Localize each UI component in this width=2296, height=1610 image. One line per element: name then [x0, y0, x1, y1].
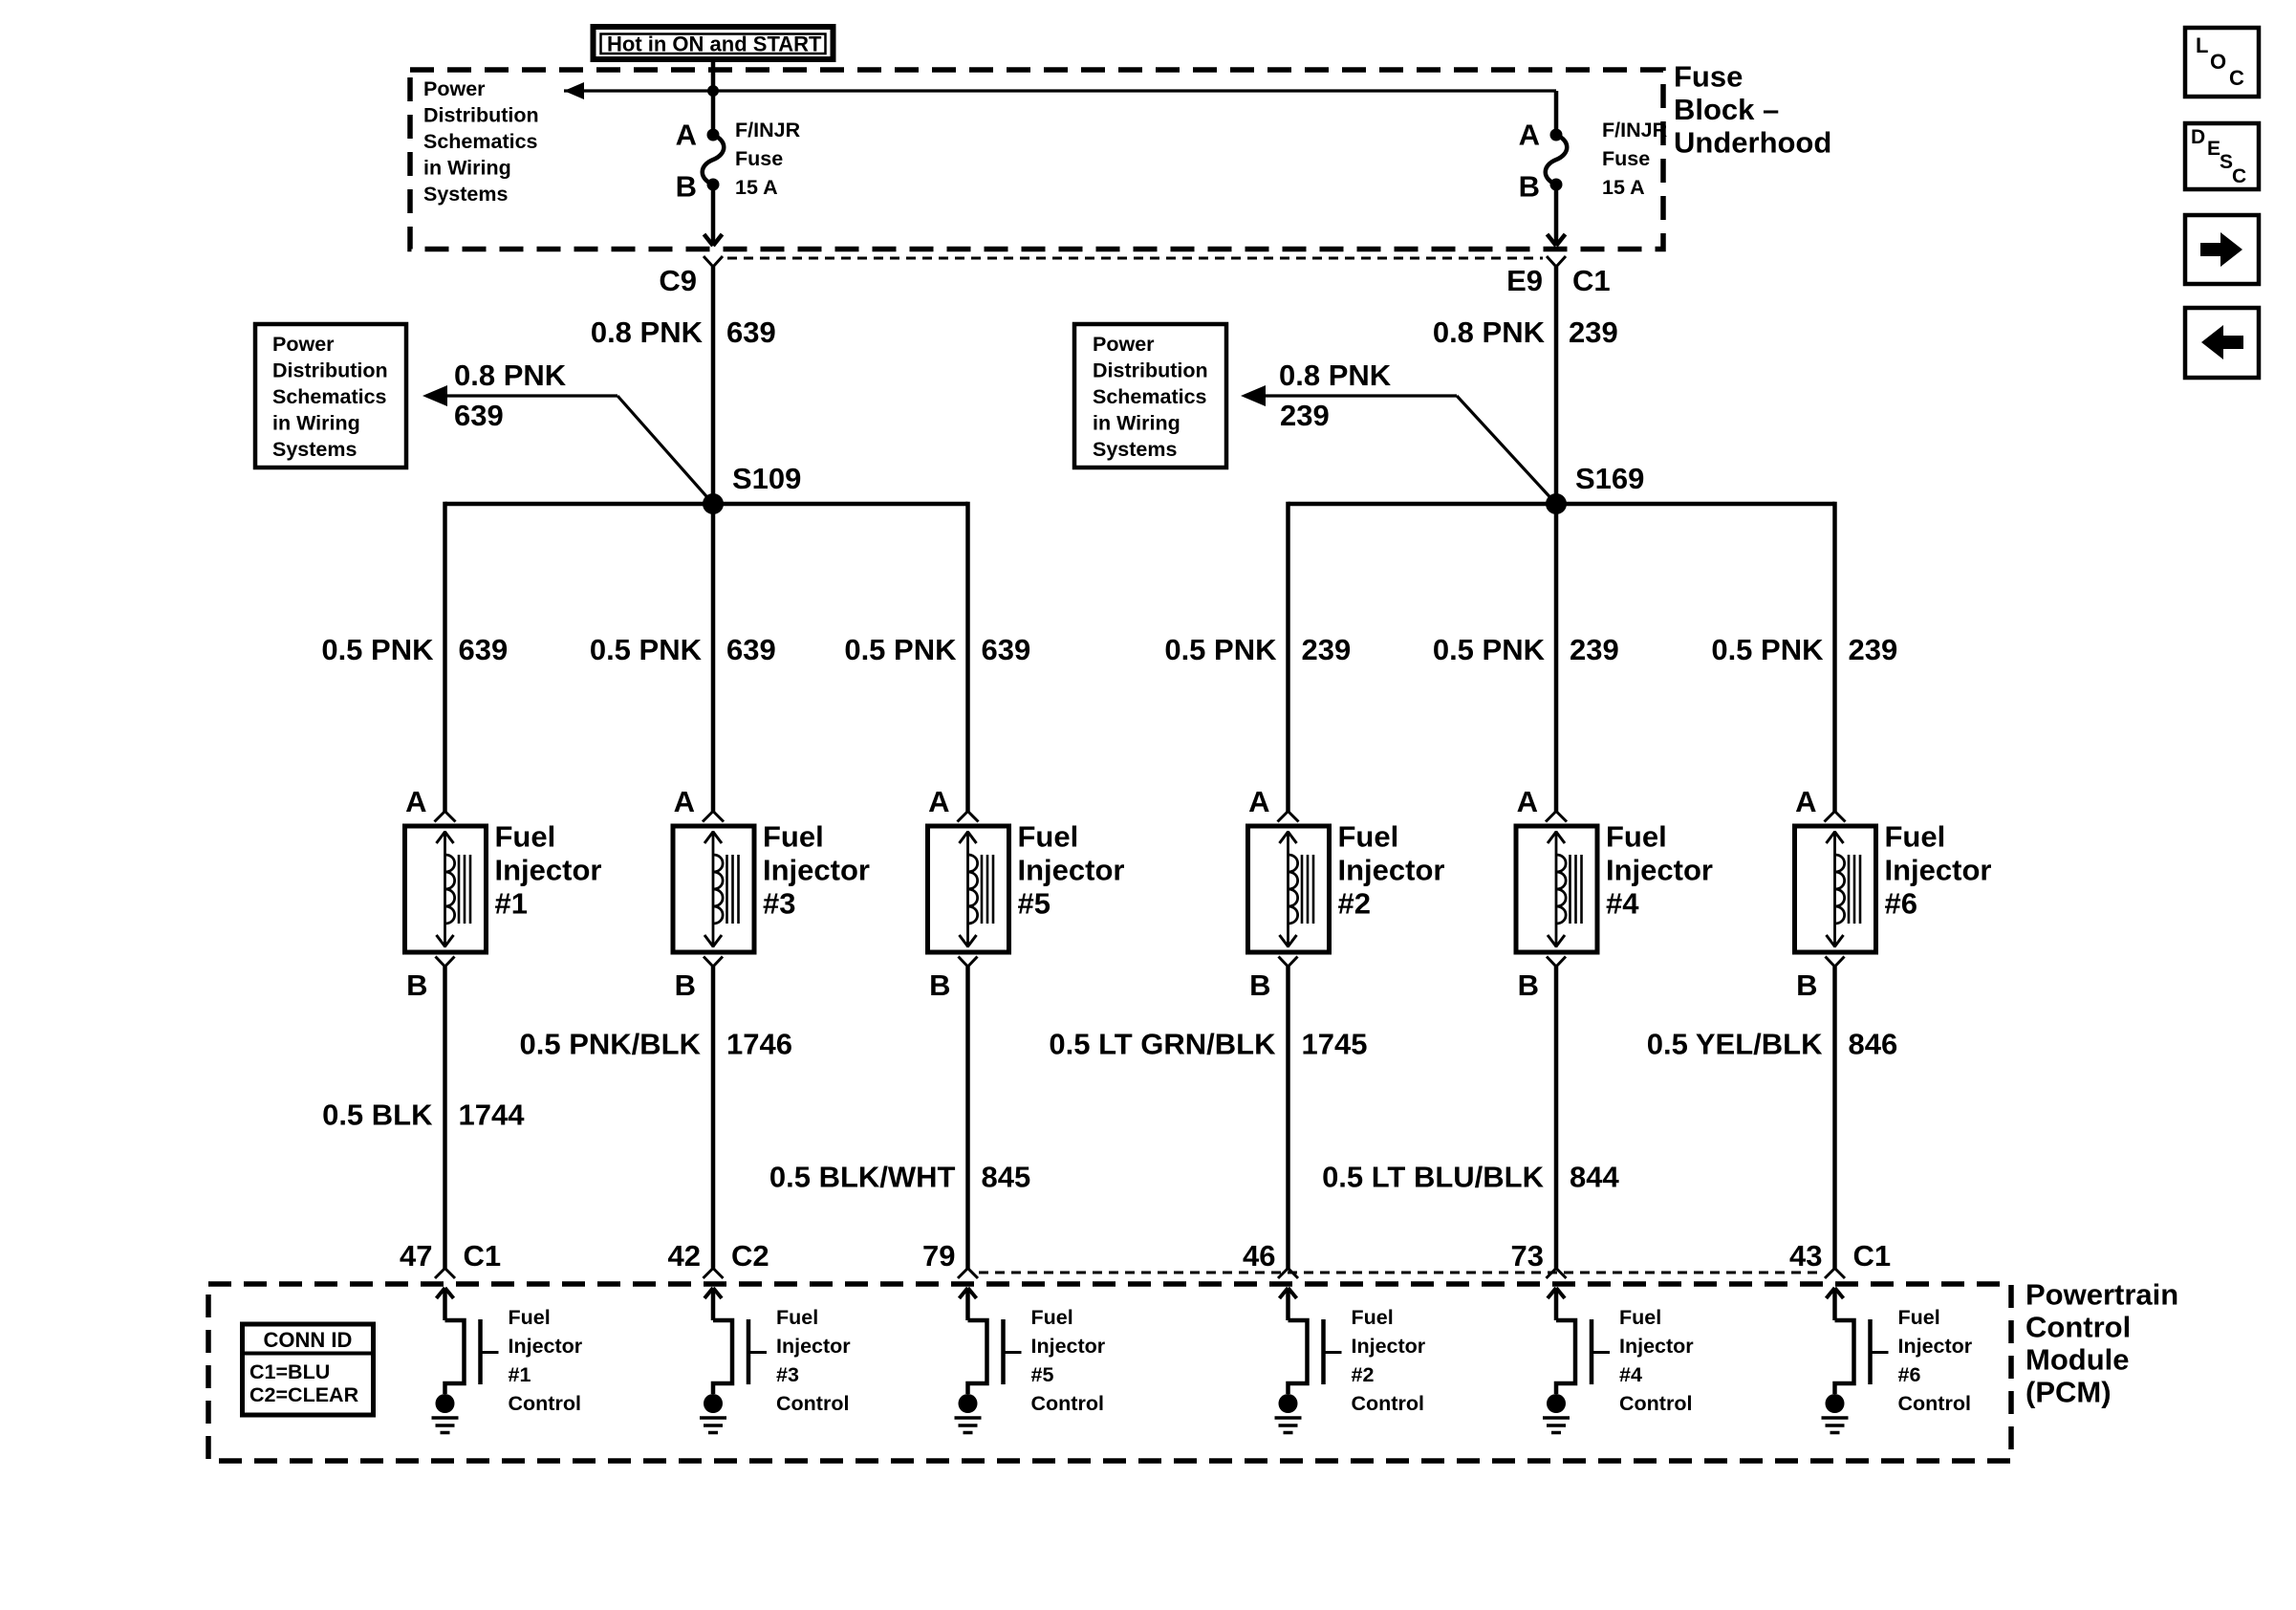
svg-text:47: 47	[400, 1239, 432, 1273]
wire: fuse B down to connector	[1554, 185, 1559, 243]
bus wire from S109	[445, 502, 968, 507]
svg-text:C2: C2	[731, 1239, 769, 1273]
svg-text:A: A	[1519, 119, 1540, 152]
svg-text:0.5 PNK: 0.5 PNK	[1711, 633, 1824, 666]
svg-text:Distribution: Distribution	[423, 103, 539, 126]
svg-text:in Wiring: in Wiring	[423, 156, 511, 179]
svg-text:A: A	[1517, 785, 1538, 818]
connector at injector #1 pin A	[435, 812, 445, 822]
svg-text:Control: Control	[1031, 1392, 1104, 1415]
svg-text:846: 846	[1849, 1027, 1898, 1060]
svg-text:845: 845	[982, 1160, 1031, 1193]
fuse F/INJR 15 A	[1550, 129, 1563, 141]
connector at injector #4 pin A	[1546, 812, 1556, 822]
ground at injector #5 driver	[959, 1394, 978, 1413]
svg-text:S: S	[2220, 151, 2233, 173]
wire: fuse B down to connector	[711, 185, 716, 243]
svg-text:Fuel: Fuel	[763, 819, 824, 853]
svg-text:Fuel: Fuel	[495, 819, 556, 853]
driver arrow into PCM pin 47	[437, 1288, 445, 1298]
svg-text:C: C	[2229, 66, 2244, 90]
svg-text:0.8 PNK: 0.8 PNK	[1433, 315, 1546, 349]
ground at injector #6 driver	[1826, 1394, 1845, 1413]
svg-text:Injector: Injector	[776, 1335, 851, 1358]
svg-text:F/INJR: F/INJR	[735, 119, 801, 141]
fuel injector #1	[405, 826, 487, 952]
svg-text:Injector: Injector	[1338, 853, 1445, 886]
svg-text:Fuel: Fuel	[1898, 1306, 1940, 1329]
wire: 0.5 PNK 639 to injector #1	[443, 502, 447, 812]
svg-text:Underhood: Underhood	[1674, 125, 1831, 159]
driver arrow into PCM pin 42	[704, 1288, 713, 1298]
svg-text:Block –: Block –	[1674, 93, 1779, 126]
svg-text:1745: 1745	[1302, 1027, 1368, 1060]
svg-text:Power: Power	[272, 333, 335, 356]
svg-text:639: 639	[726, 315, 776, 349]
svg-text:A: A	[1795, 785, 1816, 818]
svg-text:15 A: 15 A	[1602, 176, 1645, 199]
wire: 0.5 PNK 239 to injector #6	[1832, 502, 1837, 812]
svg-text:#4: #4	[1619, 1363, 1642, 1386]
svg-text:Fuel: Fuel	[1352, 1306, 1394, 1329]
connector C9	[704, 256, 713, 267]
svg-text:B: B	[406, 968, 427, 1002]
icon box arrow left	[2185, 308, 2259, 378]
label box: Hot in ON and START	[594, 27, 834, 59]
fuse block dashed box	[410, 70, 1663, 250]
svg-text:#5: #5	[1031, 1363, 1054, 1386]
svg-text:Control: Control	[1619, 1392, 1692, 1415]
connector at PCM pin 79	[958, 1269, 968, 1279]
svg-text:D: D	[2191, 126, 2205, 148]
svg-text:Fuel: Fuel	[509, 1306, 551, 1329]
svg-text:Injector: Injector	[1619, 1335, 1694, 1358]
svg-text:Injector: Injector	[763, 853, 870, 886]
reference arrow to right note box	[1241, 385, 1266, 406]
svg-text:239: 239	[1569, 315, 1618, 349]
svg-text:Injector: Injector	[1885, 853, 1992, 886]
svg-text:Injector: Injector	[495, 853, 602, 886]
svg-text:Injector: Injector	[1898, 1335, 1973, 1358]
svg-text:Fuel: Fuel	[1031, 1306, 1073, 1329]
svg-text:C1: C1	[464, 1239, 502, 1273]
icon box arrow right	[2185, 215, 2259, 284]
svg-text:79: 79	[922, 1239, 955, 1273]
wire: feed down to right fuse A	[1554, 91, 1559, 135]
fuel injector #3	[673, 826, 754, 952]
connector dashed line C9-E9	[727, 257, 1543, 260]
connector at injector #2 pin B	[1279, 957, 1289, 968]
svg-text:S109: S109	[732, 462, 801, 495]
fuse F/INJR 15 A	[707, 129, 720, 141]
connector at injector #2 pin A	[1278, 812, 1289, 822]
svg-text:Systems: Systems	[272, 438, 357, 461]
svg-text:0.5 LT GRN/BLK: 0.5 LT GRN/BLK	[1049, 1027, 1276, 1060]
splice S169	[1546, 493, 1567, 514]
svg-text:Fuel: Fuel	[776, 1306, 818, 1329]
svg-text:239: 239	[1570, 633, 1619, 666]
svg-text:Schematics: Schematics	[272, 385, 387, 408]
svg-text:Control: Control	[2025, 1310, 2131, 1343]
wire: hot feed from box to fuse A	[711, 58, 716, 135]
svg-text:Distribution: Distribution	[1093, 359, 1208, 381]
connector at injector #3 pin A	[703, 812, 713, 822]
svg-text:639: 639	[982, 633, 1031, 666]
connector at injector #6 pin A	[1825, 812, 1835, 822]
connector at injector #5 pin B	[959, 957, 968, 968]
driver transistor for injector #6	[1835, 1320, 1854, 1394]
svg-text:239: 239	[1302, 633, 1352, 666]
wire: 0.8 PNK 639 vertical	[711, 267, 716, 504]
junction dot at feed	[707, 85, 719, 97]
svg-text:C1: C1	[1853, 1239, 1892, 1273]
wire: 0.5 PNK 639 to injector #3	[711, 502, 716, 812]
ground at injector #3 driver	[704, 1394, 723, 1413]
svg-text:#1: #1	[509, 1363, 531, 1386]
svg-text:Control: Control	[776, 1392, 849, 1415]
svg-text:Fuel: Fuel	[1619, 1306, 1661, 1329]
svg-text:639: 639	[726, 633, 776, 666]
svg-text:844: 844	[1570, 1160, 1619, 1193]
svg-text:in Wiring: in Wiring	[272, 411, 360, 434]
svg-text:Fuel: Fuel	[1606, 819, 1667, 853]
svg-text:0.5 BLK/WHT: 0.5 BLK/WHT	[769, 1160, 956, 1193]
svg-text:L: L	[2196, 33, 2208, 57]
svg-text:F/INJR: F/INJR	[1602, 119, 1668, 141]
bus wire from S169	[1289, 502, 1835, 507]
svg-text:0.5 LT BLU/BLK: 0.5 LT BLU/BLK	[1322, 1160, 1545, 1193]
svg-text:C1=BLU: C1=BLU	[249, 1360, 330, 1383]
driver transistor for injector #1	[445, 1320, 465, 1394]
svg-text:Power: Power	[1093, 333, 1155, 356]
svg-text:Injector: Injector	[509, 1335, 583, 1358]
connector dashed line at PCM	[979, 1272, 1824, 1274]
splice S109	[703, 493, 724, 514]
connector at PCM pin 42	[704, 1269, 714, 1279]
svg-text:Schematics: Schematics	[423, 130, 538, 153]
svg-text:(PCM): (PCM)	[2025, 1375, 2112, 1408]
connector at injector #5 pin A	[958, 812, 968, 822]
svg-text:Schematics: Schematics	[1093, 385, 1207, 408]
svg-text:Systems: Systems	[1093, 438, 1177, 461]
svg-text:S169: S169	[1575, 462, 1644, 495]
CONN ID table	[243, 1324, 374, 1415]
svg-text:C9: C9	[659, 264, 697, 297]
svg-text:Control: Control	[1898, 1392, 1971, 1415]
arrowhead left to power distribution	[564, 82, 584, 99]
connector at PCM pin 73	[1547, 1269, 1557, 1279]
svg-text:0.8 PNK: 0.8 PNK	[591, 315, 704, 349]
driver arrow into PCM pin 79	[960, 1288, 968, 1298]
svg-text:#2: #2	[1338, 886, 1371, 920]
svg-text:#3: #3	[776, 1363, 799, 1386]
connector E9/C1	[1547, 256, 1556, 267]
svg-text:Power: Power	[423, 77, 486, 100]
fuel injector #6	[1795, 826, 1876, 952]
svg-text:#2: #2	[1352, 1363, 1375, 1386]
svg-text:CONN ID: CONN ID	[264, 1328, 353, 1352]
svg-text:Control: Control	[509, 1392, 581, 1415]
svg-text:Fuel: Fuel	[1018, 819, 1079, 853]
wire: injector #1 control to PCM	[443, 967, 447, 1269]
icon box DESC	[2185, 123, 2259, 189]
reference arrow to left note box	[422, 385, 447, 406]
svg-text:E: E	[2207, 138, 2220, 160]
svg-text:Injector: Injector	[1352, 1335, 1426, 1358]
wire: 0.5 PNK 639 to injector #5	[965, 502, 970, 812]
svg-text:B: B	[1796, 968, 1817, 1002]
svg-text:C1: C1	[1572, 264, 1611, 297]
connector at injector #1 pin B	[436, 957, 445, 968]
wire: horizontal feed bus	[564, 89, 1556, 92]
icon box LOC	[2185, 28, 2259, 97]
wire: injector #5 control to PCM	[965, 967, 970, 1269]
svg-text:1744: 1744	[459, 1098, 526, 1131]
fuel injector #5	[928, 826, 1009, 952]
fuel injector #4	[1516, 826, 1597, 952]
svg-text:0.5 PNK: 0.5 PNK	[590, 633, 703, 666]
svg-text:C2=CLEAR: C2=CLEAR	[249, 1383, 359, 1406]
svg-text:Fuse: Fuse	[1674, 59, 1743, 93]
wire: injector #4 control to PCM	[1554, 967, 1559, 1269]
driver transistor for injector #3	[713, 1320, 732, 1394]
svg-text:B: B	[675, 968, 696, 1002]
wire: 0.5 PNK 239 to injector #4	[1554, 502, 1559, 812]
svg-text:A: A	[928, 785, 949, 818]
svg-text:A: A	[674, 785, 695, 818]
svg-text:639: 639	[459, 633, 509, 666]
svg-text:B: B	[1249, 968, 1270, 1002]
svg-text:1746: 1746	[726, 1027, 792, 1060]
ground at injector #4 driver	[1547, 1394, 1566, 1413]
svg-text:#3: #3	[763, 886, 795, 920]
connector at injector #3 pin B	[704, 957, 713, 968]
svg-text:B: B	[1519, 170, 1540, 204]
svg-text:Injector: Injector	[1606, 853, 1713, 886]
svg-text:#4: #4	[1606, 886, 1639, 920]
svg-text:A: A	[405, 785, 426, 818]
svg-text:Control: Control	[1352, 1392, 1424, 1415]
svg-text:639: 639	[454, 399, 504, 432]
connector at PCM pin 46	[1278, 1269, 1289, 1279]
wire: injector #6 control to PCM	[1832, 967, 1837, 1269]
svg-text:239: 239	[1280, 399, 1330, 432]
svg-text:B: B	[676, 170, 697, 204]
svg-text:B: B	[1518, 968, 1539, 1002]
svg-text:A: A	[676, 119, 697, 152]
svg-text:0.5 PNK: 0.5 PNK	[321, 633, 434, 666]
svg-text:15 A: 15 A	[735, 176, 778, 199]
driver arrow into PCM pin 46	[1280, 1288, 1289, 1298]
svg-text:Fuse: Fuse	[735, 147, 783, 170]
arrowhead down at fuse block exit	[704, 234, 714, 246]
driver transistor for injector #2	[1289, 1320, 1308, 1394]
svg-text:Fuse: Fuse	[1602, 147, 1650, 170]
svg-text:Fuel: Fuel	[1885, 819, 1946, 853]
connector at PCM pin 43	[1825, 1269, 1835, 1279]
ground at injector #2 driver	[1279, 1394, 1298, 1413]
svg-text:#5: #5	[1018, 886, 1051, 920]
PCM dashed box	[208, 1284, 2011, 1461]
wire: injector #2 control to PCM	[1286, 967, 1290, 1269]
svg-text:0.5 BLK: 0.5 BLK	[322, 1098, 433, 1131]
svg-text:Distribution: Distribution	[272, 359, 388, 381]
svg-text:in Wiring: in Wiring	[1093, 411, 1180, 434]
svg-text:#6: #6	[1898, 1363, 1921, 1386]
svg-text:#6: #6	[1885, 886, 1917, 920]
svg-text:46: 46	[1243, 1239, 1275, 1273]
svg-text:O: O	[2210, 50, 2226, 74]
wire: injector #3 control to PCM	[711, 967, 716, 1269]
svg-text:0.8 PNK: 0.8 PNK	[1279, 359, 1392, 392]
svg-text:0.5 PNK: 0.5 PNK	[1164, 633, 1277, 666]
svg-text:0.5 PNK/BLK: 0.5 PNK/BLK	[520, 1027, 702, 1060]
svg-text:0.5 PNK: 0.5 PNK	[1433, 633, 1546, 666]
svg-text:Injector: Injector	[1018, 853, 1125, 886]
ground at injector #1 driver	[436, 1394, 455, 1413]
svg-text:Systems: Systems	[423, 183, 508, 206]
svg-text:73: 73	[1511, 1239, 1544, 1273]
svg-text:Fuel: Fuel	[1338, 819, 1399, 853]
svg-text:A: A	[1248, 785, 1269, 818]
wire: 0.8 PNK 239 vertical	[1554, 267, 1559, 504]
wire: 0.5 PNK 239 to injector #2	[1286, 502, 1290, 812]
svg-text:B: B	[929, 968, 950, 1002]
arrowhead down at fuse block exit	[1548, 234, 1557, 246]
svg-text:0.8 PNK: 0.8 PNK	[454, 359, 567, 392]
svg-text:239: 239	[1849, 633, 1898, 666]
svg-text:Hot in ON and START: Hot in ON and START	[607, 33, 822, 56]
driver arrow into PCM pin 73	[1548, 1288, 1556, 1298]
svg-text:Module: Module	[2025, 1342, 2130, 1376]
connector at PCM pin 47	[435, 1269, 445, 1279]
note box: Power Distribution Schematics (left)	[255, 324, 406, 468]
svg-text:0.5 YEL/BLK: 0.5 YEL/BLK	[1647, 1027, 1823, 1060]
driver transistor for injector #4	[1556, 1320, 1575, 1394]
svg-text:#1: #1	[495, 886, 528, 920]
svg-text:0.5 PNK: 0.5 PNK	[844, 633, 957, 666]
svg-text:43: 43	[1789, 1239, 1822, 1273]
connector at injector #6 pin B	[1826, 957, 1835, 968]
svg-text:E9: E9	[1506, 264, 1543, 297]
svg-text:Injector: Injector	[1031, 1335, 1106, 1358]
driver arrow into PCM pin 43	[1827, 1288, 1835, 1298]
connector at injector #4 pin B	[1547, 957, 1556, 968]
note box: Power Distribution Schematics (right)	[1074, 324, 1226, 468]
driver transistor for injector #5	[968, 1320, 987, 1394]
svg-text:42: 42	[668, 1239, 701, 1273]
svg-text:C: C	[2232, 165, 2246, 187]
svg-text:Powertrain: Powertrain	[2025, 1277, 2178, 1311]
fuel injector #2	[1248, 826, 1330, 952]
